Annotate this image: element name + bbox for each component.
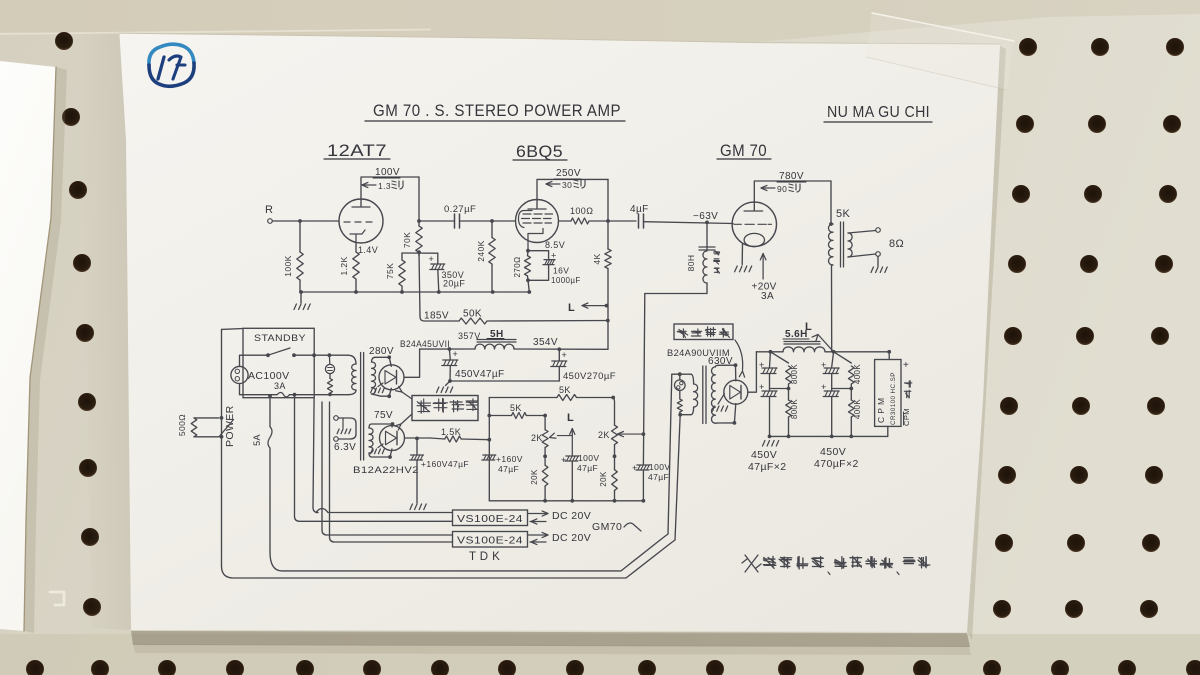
resistor 1.2K bbox=[353, 252, 359, 279]
arrow dedgawa to rect2 bbox=[395, 414, 412, 430]
node R sec bottom bbox=[733, 421, 737, 425]
svg-text:GM 70 . S. STEREO POWER AMP: GM 70 . S. STEREO POWER AMP bbox=[373, 102, 621, 120]
node 280V sec top bbox=[387, 355, 391, 359]
scribble PB core bbox=[714, 251, 720, 273]
svg-text:1.5K: 1.5K bbox=[441, 427, 461, 437]
node L out bbox=[605, 304, 609, 308]
capacitor 450V47x2 b bbox=[761, 391, 777, 397]
svg-text:1.4V: 1.4V bbox=[358, 245, 378, 255]
node 70K bottom bbox=[417, 250, 421, 254]
node 6BQ5 cathode bbox=[526, 249, 530, 253]
node 2K1 bottom bbox=[543, 454, 547, 458]
arrow vs2 out bbox=[528, 532, 549, 537]
transformer OPT secondary bbox=[848, 233, 852, 257]
label 6.3V bbox=[334, 442, 356, 453]
label VS100E-24 first bbox=[457, 513, 523, 525]
wire choke to bias line bbox=[645, 283, 707, 294]
transformer OPT core bbox=[841, 222, 844, 267]
svg-text:6BQ5: 6BQ5 bbox=[516, 143, 563, 161]
svg-text:100K: 100K bbox=[283, 255, 293, 276]
wire R sec bottom rise bbox=[734, 404, 735, 423]
label + cap16 bbox=[551, 251, 557, 261]
ground L sec 75V bbox=[371, 444, 385, 454]
label R input bbox=[265, 204, 273, 216]
svg-text:T D K: T D K bbox=[469, 551, 500, 563]
svg-text:L: L bbox=[567, 412, 574, 424]
resistor 800K b bbox=[786, 400, 792, 417]
label 350V bbox=[442, 270, 465, 280]
arrow dedgawa to rect1 bbox=[396, 386, 412, 399]
svg-text:B12A22HV2: B12A22HV2 bbox=[353, 465, 419, 476]
label 4uF bbox=[630, 204, 649, 215]
node 400K mid bbox=[849, 387, 853, 391]
wire rect1 out bbox=[404, 349, 420, 377]
label TDK bbox=[469, 551, 500, 563]
wire R secondary top bbox=[718, 364, 736, 366]
tape top-right over corner bbox=[866, 12, 1014, 90]
wire cathode bottoms bbox=[528, 265, 549, 292]
node fuse3A right bbox=[268, 393, 296, 398]
label 500ohm bbox=[177, 414, 187, 436]
svg-text:+: + bbox=[821, 382, 827, 392]
svg-text:2K: 2K bbox=[598, 430, 610, 440]
node coupling left bbox=[417, 219, 421, 223]
wire 100V line down to coupling node bbox=[418, 177, 420, 221]
label AC100V bbox=[248, 370, 290, 382]
wire power feed top bbox=[222, 328, 244, 331]
label 780V bbox=[779, 171, 804, 182]
svg-text:R: R bbox=[265, 204, 273, 216]
label 5H bbox=[487, 329, 504, 340]
svg-text:1.2K: 1.2K bbox=[339, 256, 349, 275]
svg-text:400K: 400K bbox=[853, 399, 862, 420]
rail mid psu bbox=[450, 380, 559, 382]
label 16V bbox=[553, 266, 569, 276]
wire 5K line lower bbox=[489, 415, 511, 417]
svg-text:L: L bbox=[568, 302, 575, 314]
label + c450b bbox=[562, 350, 568, 360]
resistor 5K upper bbox=[557, 395, 577, 401]
tube 6BQ5 grid dashes bbox=[522, 214, 553, 223]
label 450V b bbox=[820, 446, 846, 458]
svg-text:+: + bbox=[632, 463, 638, 473]
label NUMAGUCHI bbox=[827, 104, 930, 121]
resistor 400K a bbox=[849, 366, 855, 384]
svg-text:+160V: +160V bbox=[496, 454, 523, 464]
label 20K first bbox=[530, 469, 539, 485]
NUMAGUCHI underline bbox=[824, 121, 932, 123]
node right bus cap1 bbox=[769, 350, 773, 354]
switch standby bbox=[266, 348, 296, 357]
label +160V47uF bbox=[421, 459, 469, 469]
label 4K bbox=[592, 253, 602, 264]
label 100ohm bbox=[570, 206, 593, 216]
resistor 100ohm bbox=[571, 218, 589, 224]
wire loop B bbox=[270, 374, 672, 571]
node 240K top bbox=[490, 219, 494, 223]
wire vs feed v1 bbox=[313, 398, 318, 513]
svg-text:30: 30 bbox=[562, 180, 572, 190]
wire 800K mid link bbox=[770, 384, 789, 400]
svg-text:+: + bbox=[551, 251, 557, 261]
wire 240K stubs bbox=[491, 221, 493, 292]
scribble miri 1 bbox=[392, 181, 403, 189]
left paper edge shadow bbox=[24, 67, 67, 633]
transformer L core bbox=[361, 353, 364, 461]
wire 2K1 down bbox=[544, 447, 546, 465]
svg-text:5K: 5K bbox=[510, 403, 522, 413]
label CR30100 bbox=[890, 372, 897, 425]
wire 70K stubs bbox=[418, 221, 420, 256]
pegboard shade left of paper bbox=[80, 33, 131, 630]
tube 6BQ5 envelope bbox=[516, 200, 559, 243]
choke 5.6H core bbox=[784, 342, 820, 345]
fuse 5A bbox=[268, 427, 272, 448]
svg-text:4K: 4K bbox=[592, 253, 602, 264]
resistor right pilot dropper bbox=[677, 399, 682, 412]
label 450V47uF bbox=[455, 369, 505, 380]
wire 400K bottom bbox=[850, 417, 852, 436]
wire c100a bottom bbox=[571, 461, 573, 501]
svg-text:450V47µF: 450V47µF bbox=[455, 369, 505, 380]
wire c450b stub bbox=[558, 349, 560, 361]
label B12A22HV2 bbox=[353, 465, 419, 476]
svg-text:POWER: POWER bbox=[224, 405, 236, 447]
ground heater bbox=[337, 429, 351, 434]
wire left reg vertical bbox=[488, 398, 490, 501]
wire 20K1 bottom bbox=[544, 486, 546, 501]
resistor 800K a bbox=[786, 366, 792, 384]
label 5A bbox=[252, 434, 262, 446]
svg-text:6.3V: 6.3V bbox=[334, 442, 356, 453]
label 470uFx2 bbox=[814, 458, 859, 470]
svg-text:800K: 800K bbox=[790, 364, 799, 385]
wire Bplus riser bbox=[607, 306, 609, 349]
svg-text:+: + bbox=[561, 455, 567, 465]
note kome mark bbox=[742, 555, 761, 572]
wire vs feed v3 bbox=[322, 402, 453, 535]
svg-text:GM 70: GM 70 bbox=[720, 142, 767, 160]
resistor 70K bbox=[416, 226, 422, 253]
svg-text:STANDBY: STANDBY bbox=[254, 333, 306, 344]
label 20uF bbox=[443, 279, 465, 289]
wire c450a bottom bbox=[449, 366, 451, 382]
wire 75V top into rect bbox=[391, 424, 394, 427]
wire ac bottom bbox=[290, 394, 349, 396]
label 0.27uF bbox=[444, 204, 476, 215]
capacitor 450V47x2 a bbox=[761, 368, 777, 374]
wire 400K diag bbox=[834, 352, 852, 363]
label 5K upper bbox=[559, 385, 571, 395]
tube GM70 grid dashes bbox=[734, 223, 772, 225]
ground stage1 bbox=[294, 304, 310, 310]
svg-text:100V: 100V bbox=[649, 462, 670, 472]
svg-text:+: + bbox=[759, 360, 765, 370]
svg-text:5K: 5K bbox=[836, 208, 851, 220]
wire left pilot bottom bbox=[329, 374, 331, 395]
transformer R core bbox=[703, 366, 706, 424]
node 2K2 wiper bias bbox=[642, 432, 646, 436]
label + c450a bbox=[453, 349, 459, 359]
svg-text:100Ω: 100Ω bbox=[570, 206, 593, 216]
wire rect2 out bbox=[405, 437, 431, 439]
bottom bus mid psu bbox=[489, 500, 643, 502]
svg-text:2K: 2K bbox=[531, 433, 543, 443]
wire 100K top stub bbox=[299, 221, 301, 252]
heater ground stub bbox=[342, 418, 344, 428]
label 630V bbox=[708, 356, 733, 367]
tube 6BQ5 plate bbox=[528, 200, 546, 209]
6BQ5 underline bbox=[513, 159, 567, 161]
svg-text:50K: 50K bbox=[463, 309, 482, 320]
arrow vs1 out bbox=[528, 511, 549, 516]
left paper edge line bbox=[24, 67, 56, 631]
svg-text:−63V: −63V bbox=[693, 211, 718, 222]
wire R secondary bottom bbox=[718, 422, 734, 424]
wire 75K stubs bbox=[401, 253, 403, 292]
wire 4K stubs bbox=[607, 221, 609, 306]
choke 5H coil bbox=[475, 344, 514, 349]
label 6BQ5 bbox=[516, 143, 563, 161]
tube 12AT7 plate bbox=[352, 200, 370, 208]
capacitor 450V47 first bbox=[442, 360, 458, 366]
node input junction bbox=[298, 219, 302, 223]
wire 400K mid link bbox=[832, 384, 852, 400]
label -63V bbox=[693, 211, 718, 222]
wire 280V sec top bbox=[375, 356, 389, 358]
capacitor 350V 20uF bbox=[430, 264, 445, 270]
box CPM bbox=[875, 360, 901, 427]
pegboard hook bottom-left bbox=[50, 592, 64, 605]
paper top edge line bbox=[119, 33, 1000, 44]
svg-text:4µF: 4µF bbox=[630, 204, 649, 215]
svg-text:47µF: 47µF bbox=[498, 464, 519, 474]
pegboard lower shade bbox=[0, 634, 1200, 675]
label 1.4V bbox=[358, 245, 378, 255]
node right bus end bbox=[887, 350, 891, 354]
wire outlet top bbox=[240, 355, 267, 366]
svg-text:80H: 80H bbox=[686, 255, 696, 272]
wire OPT primary bottom down bbox=[831, 265, 833, 352]
wire 800K bottom bbox=[788, 417, 790, 436]
label 47uF a bbox=[577, 463, 598, 473]
svg-text:1000µF: 1000µF bbox=[551, 276, 581, 285]
wire capbank1 top bbox=[769, 352, 772, 367]
wire capbank1 mid bbox=[769, 374, 771, 391]
label 47uF b bbox=[648, 472, 669, 482]
title underline bbox=[365, 120, 625, 122]
label 80H bbox=[686, 255, 696, 272]
svg-text:450V: 450V bbox=[751, 449, 777, 461]
label B24A45UVII bbox=[400, 339, 450, 350]
node c450a rail bbox=[448, 379, 452, 383]
wire vs feed v4 bbox=[330, 402, 453, 542]
wire capbank2 bottom bbox=[831, 397, 833, 437]
label + c100b bbox=[632, 463, 638, 473]
arrow 90 milli bbox=[761, 184, 787, 194]
svg-text:12AT7: 12AT7 bbox=[327, 142, 387, 160]
svg-text:90: 90 bbox=[777, 184, 787, 194]
resistor 20K first bbox=[542, 465, 548, 486]
resistor 270ohm bbox=[525, 256, 531, 276]
svg-text:75V: 75V bbox=[374, 410, 393, 421]
label 100K bbox=[283, 255, 293, 276]
wire 250V line down bbox=[607, 179, 609, 221]
tube 6BQ5 beam cage bbox=[519, 211, 533, 228]
wire right pilot bottom bbox=[680, 391, 691, 415]
ground bus stage1 bbox=[301, 291, 529, 293]
transformer R primary bbox=[691, 374, 698, 415]
node lamp tap bbox=[328, 353, 332, 357]
ground right psu bbox=[763, 441, 779, 447]
arrow 1.3 milli bbox=[362, 181, 391, 191]
scribble miri 2 bbox=[574, 180, 585, 188]
ground R secondary ct bbox=[712, 394, 727, 412]
wire loop A bbox=[222, 415, 681, 578]
capacitor 450V470x2 b bbox=[823, 391, 839, 397]
label 20K second bbox=[599, 471, 608, 487]
outlet symbol bbox=[231, 366, 248, 383]
arrow L mid up bbox=[570, 429, 575, 456]
node 800K mid bbox=[787, 387, 791, 391]
arrow vs2 ret bbox=[530, 539, 546, 544]
label POWER bbox=[224, 405, 236, 447]
wire 500ohm links bbox=[194, 418, 219, 437]
wire OPT secondary bottom bbox=[848, 254, 876, 257]
capacitor 0.27uF plates bbox=[455, 214, 460, 228]
node lamp bottom bbox=[678, 413, 682, 417]
label GM 70 bbox=[720, 142, 767, 160]
wire coupling cap wires bbox=[419, 220, 515, 222]
wire 2K1 wiper bbox=[550, 433, 573, 438]
arrow L right bbox=[812, 335, 834, 352]
wire 1.5K right bbox=[461, 438, 489, 441]
wire vs feed v2 bbox=[295, 395, 453, 522]
label 70K bbox=[402, 232, 412, 248]
rectifier left1 diode bbox=[385, 371, 397, 385]
blue 17 digit 1 bbox=[158, 57, 164, 79]
main paper bottom shadow soft bbox=[133, 644, 971, 655]
capacitor 160V47 first bbox=[410, 455, 424, 460]
wire c100b bottom bbox=[642, 470, 644, 501]
capacitor 160V47 second bbox=[482, 455, 496, 460]
svg-text:8Ω: 8Ω bbox=[889, 238, 904, 250]
capacitor 16V 1000uF bbox=[543, 260, 555, 265]
wire 5A line bbox=[269, 396, 271, 552]
choke 5.6H coil bbox=[783, 347, 825, 352]
wire 6BQ5 plate up bbox=[537, 179, 608, 200]
capacitor 450V270 second bbox=[551, 361, 567, 367]
svg-text:75K: 75K bbox=[385, 263, 395, 279]
label DC 20V first bbox=[552, 510, 591, 522]
node 75V bottom bbox=[388, 455, 392, 459]
svg-text:20K: 20K bbox=[530, 469, 539, 485]
node 500ohm taps bbox=[220, 416, 224, 439]
node left pilot bottom bbox=[328, 393, 332, 397]
label 780V underline bbox=[777, 181, 806, 183]
wire right B+ bus bbox=[756, 351, 783, 353]
tape top-right bright edge bbox=[872, 13, 1014, 41]
capacitor 4uF plates bbox=[639, 214, 644, 228]
svg-text:3A: 3A bbox=[274, 381, 286, 391]
terminal 8ohm top bbox=[876, 228, 881, 233]
wire 280V sec bottom bbox=[372, 394, 390, 396]
ground 8ohm bbox=[871, 267, 887, 273]
choke 80H core bbox=[699, 247, 715, 250]
svg-text:16V: 16V bbox=[553, 266, 569, 276]
label 357V bbox=[458, 331, 481, 341]
node 5K right corner bbox=[611, 396, 615, 400]
arrow vs1 ret bbox=[530, 519, 546, 524]
capacitor 450V470x2 a bbox=[823, 368, 839, 374]
wire GM70 cathode left leg bbox=[741, 244, 743, 265]
dedgawa left box bbox=[412, 396, 478, 421]
label 3A sb bbox=[274, 381, 286, 391]
label 250V bbox=[556, 168, 581, 179]
svg-text:C P M: C P M bbox=[876, 398, 886, 423]
rectifier left1 circle bbox=[379, 365, 404, 390]
label L out stage1 bbox=[568, 302, 575, 314]
tube GM70 envelope bbox=[732, 202, 776, 246]
label 100V bbox=[375, 167, 400, 178]
label 185V bbox=[424, 311, 449, 322]
label 47uFx2 bbox=[748, 461, 787, 473]
label 280V bbox=[369, 346, 394, 357]
label 50K bbox=[463, 309, 482, 320]
label 100V underline bbox=[373, 177, 400, 179]
transformer OPT primary bbox=[829, 224, 834, 265]
arrow 30 milli bbox=[546, 180, 572, 190]
svg-text:20K: 20K bbox=[599, 471, 608, 487]
label 5K lower bbox=[510, 403, 522, 413]
arrow GM70 cathode supply bbox=[760, 254, 766, 280]
wire 100K bottom bbox=[299, 280, 301, 292]
svg-text:800K: 800K bbox=[790, 399, 799, 420]
terminal 8ohm bottom bbox=[876, 252, 881, 257]
box VS100E second bbox=[453, 532, 528, 548]
wire 1.2K stubs bbox=[355, 243, 357, 293]
wire 2K2 wiper bbox=[618, 432, 644, 437]
scribble miri 3 bbox=[789, 184, 800, 192]
svg-text:47µF: 47µF bbox=[577, 463, 598, 473]
tube 12AT7 envelope bbox=[339, 199, 383, 243]
node left bus cap1 bbox=[448, 347, 452, 351]
tube 12AT7 cathode bbox=[350, 230, 365, 243]
label DC 20V second bbox=[552, 532, 591, 544]
resistor 240K bbox=[489, 238, 495, 265]
left paper sheet bbox=[0, 61, 56, 631]
box STANDBY bbox=[243, 328, 314, 397]
scribble dedgawa left text bbox=[417, 399, 478, 414]
node mid bus dots bbox=[543, 499, 645, 503]
svg-text:280V: 280V bbox=[369, 346, 394, 357]
wire bus ground stub bbox=[300, 292, 302, 303]
capacitor 100V47 first bbox=[565, 456, 579, 461]
wire plate to 100V line bbox=[361, 177, 419, 200]
label 100V a bbox=[578, 453, 599, 463]
svg-text:+: + bbox=[453, 349, 459, 359]
svg-text:270Ω: 270Ω bbox=[513, 257, 522, 278]
node 160V cap tap bbox=[415, 437, 419, 441]
svg-text:GM70: GM70 bbox=[592, 521, 622, 533]
wire input to grid bbox=[272, 220, 339, 222]
wire power main line bbox=[221, 329, 223, 566]
GM 70 underline bbox=[717, 158, 771, 160]
label 1.2K bbox=[339, 256, 349, 275]
choke 80H coil bbox=[703, 251, 707, 283]
svg-text:240K: 240K bbox=[476, 240, 486, 261]
label 3A gm70 bbox=[761, 291, 774, 302]
